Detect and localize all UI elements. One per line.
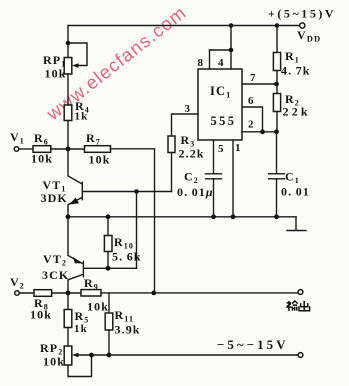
node dot RP1 top xyxy=(66,41,71,46)
node dot VT1 base column xyxy=(134,189,139,194)
pin 4 xyxy=(210,26,232,70)
svg-text:555: 555 xyxy=(211,114,237,128)
node dot pin1 rail xyxy=(231,214,236,219)
wire base column down xyxy=(136,192,138,269)
svg-text:1: 1 xyxy=(235,142,242,154)
svg-text:−5~−15V: −5~−15V xyxy=(217,337,288,352)
svg-text:4. 7k: 4. 7k xyxy=(281,64,311,78)
terminal V2 xyxy=(15,291,20,296)
pin 3 xyxy=(172,114,199,136)
resistor R4 xyxy=(64,105,72,121)
svg-text:10k: 10k xyxy=(45,67,67,81)
wire output line xyxy=(101,292,298,294)
transistor VT1 xyxy=(68,149,172,217)
node dot R1 rail xyxy=(275,23,280,28)
potentiometer RP1 xyxy=(64,43,87,74)
watermark www.elecfans.com xyxy=(42,2,191,125)
pin 5 xyxy=(213,140,215,174)
terminal V1 xyxy=(14,147,19,152)
svg-text:1k: 1k xyxy=(75,111,89,123)
wire RP1 column xyxy=(67,26,69,58)
node dot output column xyxy=(151,291,156,296)
svg-text:4: 4 xyxy=(218,57,225,69)
wire R4 to node xyxy=(67,121,69,150)
wire top +V rail xyxy=(68,25,300,27)
node dot RP2 loop xyxy=(89,353,94,358)
node dot C2 rail xyxy=(211,214,216,219)
resistor R5 xyxy=(64,293,72,346)
node dot C1 rail xyxy=(274,214,279,219)
resistor R7 xyxy=(85,146,111,153)
pin 7 xyxy=(242,83,277,85)
label 输出 xyxy=(286,301,309,311)
pin 8 xyxy=(209,50,211,69)
svg-text:22k: 22k xyxy=(283,105,311,119)
pin 2 xyxy=(242,131,277,133)
terminal -V xyxy=(298,353,303,358)
node dot VT2 collector xyxy=(66,291,71,296)
svg-text:6: 6 xyxy=(248,95,255,107)
node dot R10 bottom xyxy=(106,266,111,271)
wire V1 to R6 xyxy=(19,148,33,150)
svg-text:10k: 10k xyxy=(43,355,65,369)
wire ground rail xyxy=(68,216,296,218)
wire RP1 to R4 xyxy=(67,74,69,105)
node dot R10 top xyxy=(106,214,111,219)
svg-text:3: 3 xyxy=(185,103,192,115)
ground xyxy=(295,217,297,230)
svg-text:10k: 10k xyxy=(31,152,53,166)
svg-text:3CK: 3CK xyxy=(42,268,69,282)
svg-text:5. 6k: 5. 6k xyxy=(112,250,142,264)
op-amp IC1 555 xyxy=(198,69,242,140)
terminal VDD xyxy=(300,23,305,28)
capacitor C2 xyxy=(206,174,222,217)
wire V2 to R8 xyxy=(20,292,35,294)
svg-text:3.9k: 3.9k xyxy=(115,323,141,337)
pin 1 xyxy=(232,140,234,217)
wire R6 to R7 xyxy=(51,148,85,150)
resistor R10 xyxy=(104,217,112,268)
wire -V rail xyxy=(76,354,298,356)
transistor VT2 xyxy=(68,218,137,293)
svg-text:10k: 10k xyxy=(30,308,52,322)
svg-text:2: 2 xyxy=(248,119,255,131)
svg-text:2.2k: 2.2k xyxy=(179,147,205,161)
node dot VT1 emitter xyxy=(66,214,71,219)
wire R7 to output column xyxy=(111,149,155,293)
svg-text:8: 8 xyxy=(198,57,205,69)
node dot R11 bottom xyxy=(107,353,112,358)
svg-text:7: 7 xyxy=(250,72,257,84)
potentiometer RP2 xyxy=(64,346,91,377)
svg-text:0. 01: 0. 01 xyxy=(281,185,310,199)
capacitor C1 xyxy=(269,132,285,217)
resistor R11 xyxy=(105,293,113,355)
resistor R1 xyxy=(273,26,280,85)
node dot R6 R7 R4 xyxy=(66,147,71,152)
svg-text:3DK: 3DK xyxy=(41,191,68,205)
svg-text:10k: 10k xyxy=(89,153,111,167)
terminal output xyxy=(298,290,303,295)
svg-text:+(5~15)V: +(5~15)V xyxy=(268,7,336,21)
resistor R2 xyxy=(273,84,280,132)
resistor R9 xyxy=(81,290,101,296)
resistor R6 xyxy=(33,146,51,153)
svg-text:10k: 10k xyxy=(87,300,109,314)
pin 6 xyxy=(242,107,263,132)
resistor R8 xyxy=(34,290,52,297)
svg-text:1k: 1k xyxy=(74,323,88,335)
resistor R3 xyxy=(168,136,175,192)
wire R8 to R9 xyxy=(52,292,81,294)
svg-text:5: 5 xyxy=(218,143,225,155)
node dot pin4 rail xyxy=(229,23,234,28)
svg-text:0. 01μ: 0. 01μ xyxy=(177,185,214,199)
